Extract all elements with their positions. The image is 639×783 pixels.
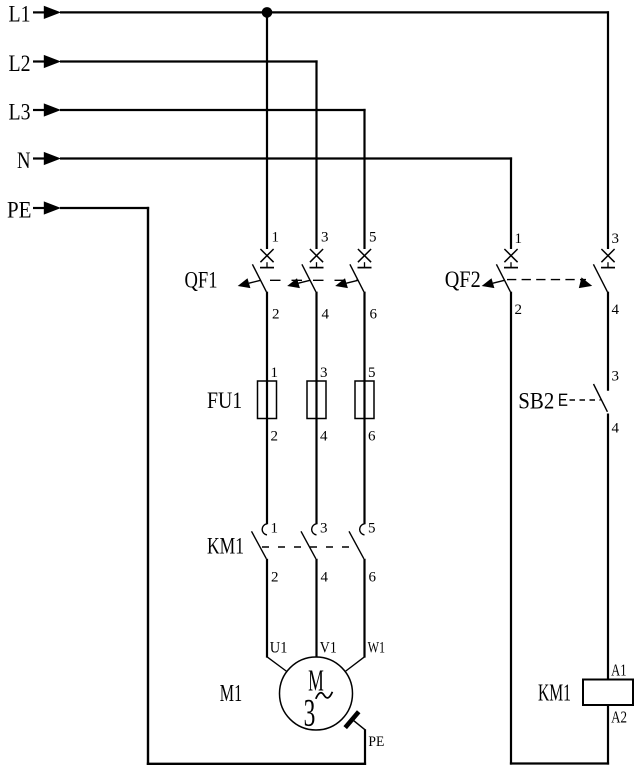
breaker QF2 label: [445, 267, 481, 292]
svg-text:PE: PE: [7, 197, 32, 222]
svg-text:6: 6: [368, 429, 376, 445]
breaker QF1 linkage arrow pole1: [238, 278, 261, 288]
svg-text:2: 2: [271, 429, 279, 445]
wire L2 drop to QF1 pin3: [315, 60, 317, 249]
svg-text:W1: W1: [368, 640, 386, 657]
node L1 junction: [262, 7, 273, 18]
breaker QF1 pole 5-6: [350, 249, 372, 292]
svg-text:4: 4: [612, 421, 620, 437]
net PE label: [7, 197, 32, 222]
breaker QF2 pole 1-2: [496, 249, 518, 292]
pin 5 QF1: [369, 230, 377, 246]
pin A1 KM1 coil: [611, 660, 626, 679]
pin 6 KM1: [369, 570, 377, 586]
wire QF1-4 to FU1-3: [315, 292, 317, 525]
wire PE bottom rail: [147, 763, 366, 765]
wire KM1-6 to motor W1: [363, 559, 365, 658]
wire L1 drop to QF2 pin3: [607, 11, 609, 249]
motor M1 circle: [280, 657, 353, 730]
terminal V1 label: [320, 640, 337, 657]
svg-text:1: 1: [515, 231, 523, 247]
breaker QF1 label: [185, 267, 218, 292]
svg-text:FU1: FU1: [207, 388, 242, 413]
breaker QF1 pole 3-4: [302, 249, 324, 292]
net N label: [17, 148, 31, 173]
svg-text:6: 6: [370, 307, 378, 323]
motor M1 letter M: [308, 662, 324, 697]
svg-text:PE: PE: [368, 734, 384, 750]
contactor coil KM1 box: [583, 680, 633, 706]
fuse FU1 element 3: [355, 381, 374, 419]
pin 3 QF2: [612, 231, 620, 247]
wire PE drop: [147, 207, 149, 765]
svg-text:2: 2: [515, 302, 523, 318]
pin 1 KM1: [271, 521, 279, 537]
net L1 source arrow: [33, 6, 61, 19]
wire L1 drop to QF1 pin1: [266, 12, 268, 249]
svg-text:3: 3: [612, 369, 620, 385]
wire L1 rail: [60, 11, 609, 13]
pin 4 QF1: [322, 307, 330, 323]
svg-text:4: 4: [322, 307, 330, 323]
svg-text:4: 4: [320, 429, 328, 445]
svg-text:U1: U1: [270, 640, 288, 657]
breaker QF2 linkage dashed: [507, 279, 586, 281]
wire PE rail: [60, 207, 149, 209]
svg-text:1: 1: [271, 365, 279, 381]
pin 2 KM1: [271, 570, 279, 586]
wire SB2-4 to KM1 coil A1: [607, 414, 609, 680]
wire KM1-2 to motor U1: [266, 559, 268, 658]
pin 4 FU1: [320, 429, 328, 445]
contactor KM1 contact 5-6: [349, 524, 365, 559]
motor M1 frame PE stroke: [345, 712, 359, 728]
svg-text:A1: A1: [611, 660, 626, 679]
pin 3 SB2: [612, 369, 620, 385]
pin 2 FU1: [271, 429, 279, 445]
svg-text:V1: V1: [320, 640, 337, 657]
pin 5 KM1: [368, 521, 376, 537]
wire QF2-4 to SB2: [607, 292, 609, 391]
svg-text:KM1: KM1: [207, 534, 244, 559]
wire QF1-6 to FU1-5: [363, 292, 365, 525]
wire L3 drop to QF1 pin5: [363, 109, 365, 249]
terminal U1 label: [270, 640, 288, 657]
pin A2 KM1 coil: [611, 707, 627, 726]
breaker QF1 pole 1-2: [252, 249, 274, 292]
svg-text:3: 3: [320, 521, 328, 537]
pin 5 FU1: [368, 365, 376, 381]
svg-text:3: 3: [321, 230, 329, 246]
svg-text:SB2: SB2: [518, 388, 554, 413]
svg-text:QF1: QF1: [185, 267, 218, 292]
pin 2 QF1: [272, 307, 280, 323]
svg-text:4: 4: [612, 302, 620, 318]
pushbutton SB2 label: [518, 388, 554, 413]
pushbutton SB2 actuator E: [560, 394, 568, 405]
pin 6 FU1: [368, 429, 376, 445]
net L3 label: [9, 99, 31, 124]
wire motor PE lead: [354, 721, 366, 730]
svg-text:4: 4: [321, 570, 329, 586]
net L1 label: [9, 2, 31, 27]
svg-text:3: 3: [612, 231, 620, 247]
svg-text:L1: L1: [9, 2, 31, 27]
pin 6 QF1: [370, 307, 378, 323]
pin 1 FU1: [271, 365, 279, 381]
breaker QF2 pole 3-4: [593, 249, 615, 292]
pin 4 QF2: [612, 302, 620, 318]
pin 1 QF1: [272, 230, 280, 246]
svg-text:5: 5: [368, 365, 376, 381]
contactor coil KM1 label: [538, 681, 571, 707]
svg-text:L2: L2: [9, 51, 31, 76]
svg-text:2: 2: [271, 570, 279, 586]
motor M1 tilde: [316, 692, 333, 699]
wire KM1 coil A2 down: [607, 705, 609, 765]
pin 1 QF2: [515, 231, 523, 247]
pin 4 SB2: [612, 421, 620, 437]
breaker QF1 linkage arrow pole3: [335, 278, 358, 288]
svg-text:A2: A2: [611, 707, 627, 726]
terminal W1 label: [368, 640, 386, 657]
wire motor PE down: [364, 729, 366, 765]
pin 2 QF2: [515, 302, 523, 318]
net L2 source arrow: [33, 55, 61, 68]
svg-text:5: 5: [369, 230, 377, 246]
terminal PE label motor: [368, 734, 384, 750]
svg-text:M1: M1: [220, 681, 242, 707]
net L3 source arrow: [33, 103, 61, 116]
wire N rail: [60, 157, 512, 159]
motor M1 lead W1: [345, 657, 364, 672]
breaker QF1 linkage dashed: [270, 279, 358, 281]
pin 3 KM1: [320, 521, 328, 537]
svg-text:QF2: QF2: [445, 267, 481, 292]
contactor KM1 contact 1-2: [252, 524, 268, 559]
net N source arrow: [33, 152, 61, 165]
svg-text:KM1: KM1: [538, 681, 571, 707]
svg-text:6: 6: [369, 570, 377, 586]
contactor KM1 main contacts label: [207, 534, 244, 559]
wire L2 rail: [60, 60, 318, 62]
breaker QF1 linkage arrow pole2: [287, 278, 310, 288]
fuse FU1 element 1: [258, 381, 277, 419]
motor M1 label: [220, 681, 242, 707]
wire QF1-2 to FU1-1: [266, 292, 268, 525]
motor M1 digit 3: [304, 692, 316, 735]
pushbutton SB2 contact blade: [594, 384, 608, 412]
svg-text:N: N: [17, 148, 31, 173]
contactor KM1 linkage dashed: [262, 546, 352, 548]
fuse FU1 label: [207, 388, 242, 413]
contactor KM1 contact 3-4: [301, 524, 317, 559]
svg-text:1: 1: [271, 521, 279, 537]
fuse FU1 element 2: [307, 381, 326, 419]
pin 4 KM1: [321, 570, 329, 586]
svg-text:3: 3: [320, 365, 328, 381]
wire control bottom rail: [510, 762, 609, 764]
svg-text:1: 1: [272, 230, 280, 246]
svg-text:2: 2: [272, 307, 280, 323]
svg-text:5: 5: [368, 521, 376, 537]
wire L3 rail: [60, 109, 366, 111]
wire KM1-4 to motor V1: [315, 559, 317, 658]
breaker QF2 linkage arrow right: [579, 277, 592, 288]
breaker QF2 linkage arrow left: [482, 278, 505, 288]
motor M1 lead U1: [267, 657, 287, 672]
svg-text:3: 3: [304, 692, 316, 735]
net L2 label: [9, 51, 31, 76]
svg-text:L3: L3: [9, 99, 31, 124]
wire N drop to QF2 pin1: [510, 157, 512, 249]
pin 3 QF1: [321, 230, 329, 246]
net PE source arrow: [33, 201, 61, 214]
wire QF2-2 down to bottom: [510, 292, 512, 765]
pushbutton SB2 actuator dashed link: [570, 399, 601, 401]
pin 3 FU1: [320, 365, 328, 381]
